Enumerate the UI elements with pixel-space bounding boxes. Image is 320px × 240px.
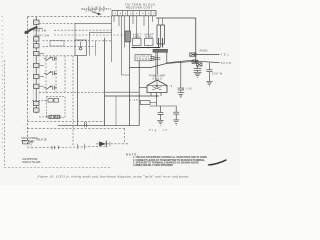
wire dashed feed y23	[39, 22, 75, 24]
svg-text:OUTPUT: OUTPUT	[137, 56, 151, 58]
node c	[156, 47, 158, 49]
wire block descender 2	[118, 16, 120, 26]
wire dashed power lead-in top	[28, 16, 113, 18]
capacitor C9	[206, 63, 212, 81]
terminal strip boxes	[34, 20, 40, 112]
wire drop to chassis	[115, 96, 117, 126]
ground G3	[177, 93, 184, 98]
capacitor C4	[55, 115, 60, 118]
junction box small dark	[125, 31, 131, 42]
svg-text:AUDIO: AUDIO	[200, 50, 208, 53]
capacitor C6 branch	[173, 106, 179, 120]
wire dashed vertical grid b	[55, 56, 57, 93]
wire descender to tube box 1	[136, 16, 138, 39]
svg-text:TRANS: TRANS	[137, 58, 150, 61]
capacitor C2	[54, 99, 59, 102]
switch contact S1c	[44, 86, 57, 90]
label box output trans	[135, 55, 151, 61]
wire block descender 3	[111, 16, 113, 62]
wire filter feed lower	[39, 116, 49, 118]
wire L feed y32	[89, 32, 111, 56]
wire cathode branch bus	[150, 105, 177, 107]
node plate	[156, 85, 158, 87]
wire left long vertical	[77, 56, 79, 126]
ground G1	[157, 120, 163, 125]
svg-text:RADIO-2 TM-1136: RADIO-2 TM-1136	[22, 161, 41, 164]
relay box K1	[157, 25, 165, 48]
wire plug drop	[30, 144, 32, 148]
wire stub row 2	[39, 65, 44, 67]
capacitor stack left of plate	[150, 57, 154, 61]
wire dashed bottom grid	[39, 91, 105, 93]
wire dashed vertical grid d	[72, 56, 74, 147]
capacitor C7 audio coupling	[178, 61, 184, 92]
switch contact S1a	[44, 57, 57, 61]
wire block descender 1	[113, 16, 115, 22]
wire dashed y46	[43, 45, 97, 47]
wire resistor link	[150, 96, 157, 106]
connector ticks bottom	[78, 144, 85, 150]
svg-text:PWR CABLE: PWR CABLE	[47, 115, 62, 118]
wire stub row 4	[39, 85, 44, 87]
wire block descender 5	[133, 16, 153, 26]
resistor R1	[140, 101, 150, 105]
wire descender to tube box 2	[148, 16, 150, 39]
wire top bus to right corner	[156, 17, 196, 19]
wire screen bus	[105, 91, 140, 93]
wire dashed vertical grid c	[64, 56, 66, 93]
wire riser x95	[95, 41, 97, 56]
svg-text:4. WIRES ARE NO. 14 AWG STRAND: 4. WIRES ARE NO. 14 AWG STRANDED	[133, 164, 173, 167]
wire mid vertical	[104, 38, 106, 126]
wire grid feed	[139, 87, 147, 89]
wire cathode bus	[105, 95, 160, 97]
junction box B1 antenna	[75, 40, 86, 56]
wire dashed diode link	[107, 143, 128, 145]
wire dashed bottom feed	[28, 146, 106, 148]
wire stub row 3	[39, 76, 44, 78]
tube box V2	[145, 39, 154, 46]
wire light vertical near diode	[109, 142, 111, 147]
wire solid feed y23	[75, 22, 112, 24]
junction box small upper	[50, 41, 64, 47]
switch contact S1b	[44, 71, 57, 75]
node a	[133, 47, 135, 49]
svg-text:C-140: C-140	[183, 88, 193, 90]
capacitor C5 branch	[158, 106, 164, 120]
ground G5	[206, 81, 212, 86]
capacitor pair on plate lead	[153, 58, 160, 60]
svg-text:PWR SW: PWR SW	[33, 30, 47, 33]
wire dashed vertical grid a	[45, 56, 47, 93]
svg-text:TEL: TEL	[221, 53, 230, 56]
wire bent descender	[122, 16, 130, 75]
wire b1 riser	[74, 23, 76, 40]
capacitor C1	[48, 99, 53, 102]
capacitor C3	[49, 115, 54, 118]
wire dashed outer border bottom	[4, 167, 111, 169]
wire sloped audio takeoff	[167, 52, 196, 63]
svg-text:SPKR: SPKR	[221, 62, 231, 65]
ground G2	[173, 120, 179, 125]
tube V3 envelope	[147, 80, 167, 93]
wire descender pair to relay box	[159, 18, 163, 25]
wire long audio line	[130, 61, 220, 67]
wire dashed bus trio upper	[54, 29, 113, 31]
svg-text:C-9: C-9	[166, 86, 173, 88]
terminal block screws	[115, 12, 155, 14]
svg-text:500-W: 500-W	[212, 73, 223, 76]
jack J2 cluster	[192, 60, 202, 66]
wire dashed horizontal y55	[39, 55, 75, 57]
wire tube pins	[151, 93, 161, 97]
wire chassis bottom	[58, 125, 139, 127]
wire dashed left cable border	[27, 17, 29, 147]
diode CR1	[99, 141, 106, 146]
wire block descender 4	[124, 16, 126, 48]
wire tel row	[192, 54, 220, 56]
node b	[148, 47, 150, 49]
terminal strip column spine	[35, 17, 37, 114]
wire stub row 1	[39, 53, 44, 55]
wire long vertical left-mid	[129, 16, 131, 126]
antenna changeover dark contact	[25, 27, 36, 33]
wire dashed drop	[124, 128, 126, 143]
page left margin perforation dots	[1, 16, 3, 150]
wire dashed lower bus 1	[28, 120, 105, 122]
wire plate lead pair	[156, 52, 158, 80]
terminal block TB1	[112, 11, 156, 16]
ground G4	[194, 72, 202, 77]
wire top corner drop	[195, 18, 197, 63]
capacitor C8	[194, 66, 202, 72]
transformer T1 dark	[153, 49, 168, 52]
node cathode	[156, 95, 158, 97]
notes list	[126, 154, 207, 167]
plug P1	[23, 140, 30, 144]
wire filter feed upper	[32, 99, 48, 101]
arrow into terminal block	[92, 12, 99, 14]
jack J1	[190, 53, 196, 56]
svg-text:RECEIVER CONT: RECEIVER CONT	[126, 6, 152, 10]
terminal strip side rails	[34, 20, 40, 112]
wire relay box drop	[160, 44, 162, 48]
pencil check swoosh	[209, 160, 227, 165]
wire dashed outer border left	[3, 60, 5, 168]
paper speckle	[8, 7, 228, 177]
svg-text:RELAY JB: RELAY JB	[37, 139, 47, 142]
filter box dashed F1	[47, 97, 66, 118]
wire junction bus	[132, 47, 161, 49]
fuse marks on feed	[52, 146, 59, 150]
node d	[195, 61, 197, 63]
tube box V1	[133, 39, 142, 46]
svg-text:CABLE W-6: CABLE W-6	[85, 9, 105, 13]
wire dashed lower bus 2	[28, 127, 125, 129]
junction ticks	[85, 122, 87, 127]
wire transformer secondary vertical	[138, 61, 140, 126]
